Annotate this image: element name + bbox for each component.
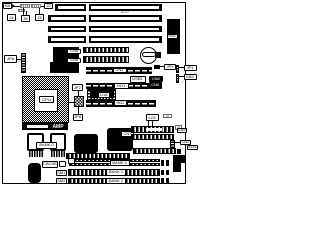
board outline (2, 2, 186, 184)
wire (175, 142, 181, 143)
wire (17, 59, 21, 60)
label CN2 (180, 140, 191, 146)
voltage regulator bar AMP (22, 123, 68, 130)
black tag CN9 (149, 82, 163, 89)
header J11 pins (right edge) (176, 65, 179, 74)
IDE connector 1 (86, 83, 149, 90)
label CN6 (67, 58, 81, 64)
SIMM B end clips (161, 170, 164, 176)
chipset corner mark (116, 83, 120, 88)
KB label pointer (12, 4, 15, 8)
header P3 (grey striped small) (18, 9, 25, 12)
SIMM A end clips (161, 160, 164, 166)
wire (26, 11, 27, 16)
jumper block JP3 (74, 96, 84, 107)
black tag CN8 (149, 76, 164, 83)
CPU socket inner window (34, 89, 58, 112)
jumper stub (154, 65, 161, 69)
chipset pin row top (89, 85, 114, 87)
wire (148, 121, 149, 126)
ISA slot 1 short segment (55, 4, 86, 11)
wire (39, 8, 40, 15)
label JP8 (73, 114, 84, 121)
label JP1 (straddles border) (184, 65, 197, 71)
CPU socket U2 (pin grid) (22, 76, 69, 123)
header bar above SIMMs (left) (66, 153, 130, 159)
label BANK 1 on SIMM (106, 169, 126, 176)
wire (12, 6, 20, 7)
label J3 (35, 14, 44, 21)
label SM2 (56, 178, 67, 185)
label HD2 (114, 100, 127, 106)
wire (160, 66, 164, 67)
wire (179, 67, 184, 68)
label HD1 (114, 83, 130, 89)
header CN6 (striped bar) (83, 56, 129, 63)
power connector block (bottom right) (173, 155, 186, 163)
header J12 pins (right edge) (176, 74, 179, 84)
chip U3 (black) (74, 134, 98, 153)
power block (black, above CPU) (53, 47, 79, 73)
label KB1 (167, 34, 179, 40)
power block lower-left extension (50, 62, 56, 73)
header bar above SIMMs (right) (133, 148, 176, 154)
ISA slot 1 long segment (89, 4, 162, 11)
ISA slot 3 short segment (48, 26, 86, 33)
label BANK 0 on SIMM (110, 160, 130, 167)
wire (69, 102, 75, 103)
wire (78, 91, 79, 96)
label JP2 (72, 84, 83, 91)
header row 2 (131, 134, 174, 140)
ISA slot 2 long segment (89, 15, 162, 22)
SIMM A left tab (68, 158, 75, 164)
header row 1 key window (146, 128, 162, 132)
label JP6 (4, 55, 17, 63)
AMP white stripe (27, 125, 48, 128)
label USB1 (130, 76, 146, 83)
wire (179, 76, 184, 77)
header P1 (grey striped) (20, 4, 30, 9)
header J4C pins (170, 140, 175, 149)
header row 1 (printer port) (131, 126, 174, 133)
end cap (177, 149, 181, 154)
chipset pin col left (88, 90, 90, 105)
battery terminal (155, 52, 162, 58)
SIMM row C (68, 178, 160, 184)
capacitor C1 (black) (28, 163, 42, 183)
header JP6 pins (vertical) (21, 53, 26, 73)
header P2 (grey striped) (31, 4, 41, 9)
ISA slot 2 short segment (48, 15, 86, 22)
label 4CN (outside border) (187, 145, 198, 151)
label CN5 (67, 49, 81, 55)
ISA slot 4 short segment (48, 36, 86, 43)
chipset pin col right (114, 90, 116, 105)
battery pill (142, 52, 157, 57)
label J2 (44, 3, 53, 9)
box1 pins (29, 151, 44, 157)
label CACHE (42, 161, 58, 168)
label J6 (21, 15, 30, 22)
box2 pins (51, 151, 66, 157)
wire (152, 121, 153, 126)
wire (41, 6, 44, 7)
SIMM row A lower (69, 163, 160, 166)
cache tab (59, 161, 66, 167)
FDD connector CN1 (86, 67, 152, 74)
label KB2 (straddles border) (184, 74, 197, 80)
label J4 (7, 14, 16, 21)
label LG1 (146, 114, 159, 121)
small label J8 (163, 114, 173, 119)
chip U4 (black) (107, 128, 134, 151)
label JP9 (164, 64, 176, 70)
label CPU (39, 96, 54, 103)
label BANK 0 (36, 142, 57, 149)
battery BT1 (140, 47, 157, 64)
keyboard connector block (top right) (167, 19, 180, 54)
slot caption SL22 (115, 11, 135, 15)
label SM1 (56, 170, 67, 177)
label CN3 (177, 128, 188, 134)
chipset pin row bottom (89, 98, 114, 100)
chipset U1 (black QFP) (87, 83, 116, 108)
header CN5 (striped bar) (83, 47, 129, 54)
AMP text (48, 124, 68, 130)
regulator box 2 (50, 133, 66, 152)
wire (78, 107, 79, 114)
label BANK 2 on SIMM (106, 178, 126, 184)
power connector block lower (173, 163, 182, 173)
SIMM row A upper (69, 159, 160, 162)
SIMM row B (68, 169, 160, 176)
wire (23, 8, 24, 15)
ISA slot 3 long segment (89, 26, 162, 33)
label CN7 (121, 131, 134, 138)
connector J1 label (top left) (3, 3, 12, 9)
label CN1 (113, 68, 127, 74)
SIMM C end clips (161, 178, 164, 184)
regulator box 1 (27, 133, 44, 152)
IDE connector 2 (86, 100, 156, 107)
label U18 on chipset (98, 92, 111, 98)
ISA slot 4 long segment (89, 36, 162, 43)
small label J9 (175, 125, 182, 130)
